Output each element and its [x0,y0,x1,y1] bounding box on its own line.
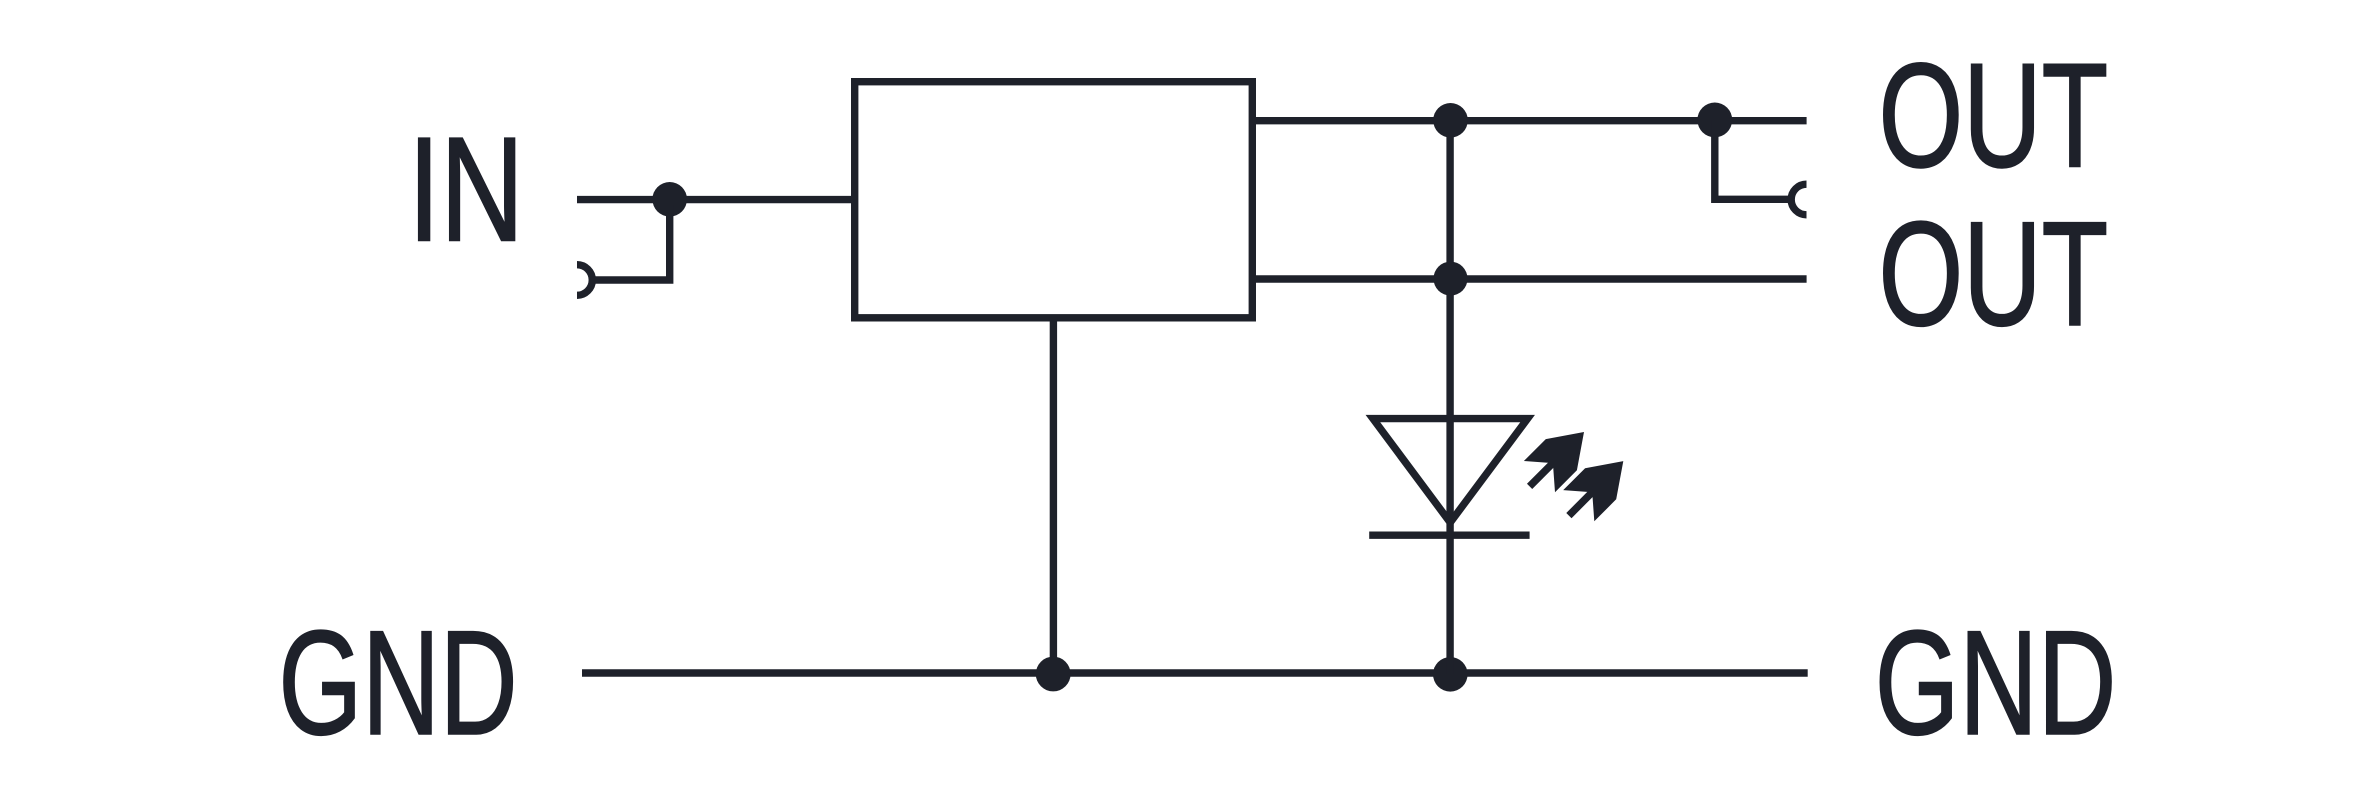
svg-text:GND: GND [279,601,518,766]
wire LED branch vertical [1446,121,1453,674]
LED light arrow 1 head [1524,432,1584,492]
node IN junction [652,182,687,217]
node OUT-top/LED junction [1433,103,1468,138]
plug contact IN (open semicircle) [577,265,592,296]
wire box bottom to GND [1050,317,1057,674]
LED light arrow 1 tail [1530,460,1556,486]
node GND-LED junction [1433,657,1468,692]
svg-text:IN: IN [408,107,524,272]
node OUT-top plug junction [1697,103,1732,138]
LED D1 triangle (anode) [1373,419,1528,523]
wire OUT bottom [1252,275,1807,282]
LED D1 cathode bar [1369,532,1529,539]
svg-text:GND: GND [1875,601,2117,766]
LED light arrow 2 tail [1569,489,1595,515]
wire OUT top [1252,117,1807,124]
wire OUT plug drop [1715,120,1792,199]
svg-text:OUT: OUT [1879,192,2109,357]
wire IN to box [577,196,858,203]
LED light arrow 2 head [1563,461,1623,521]
node GND-box junction [1036,657,1071,692]
node OUT-bottom/LED junction [1434,262,1468,296]
wire GND bus [582,669,1808,676]
svg-text:OUT: OUT [1879,33,2109,198]
wire plug to IN junction [592,205,670,280]
plug contact OUT (open semicircle) [1791,184,1806,215]
box U1 (electronics block) [855,82,1253,318]
